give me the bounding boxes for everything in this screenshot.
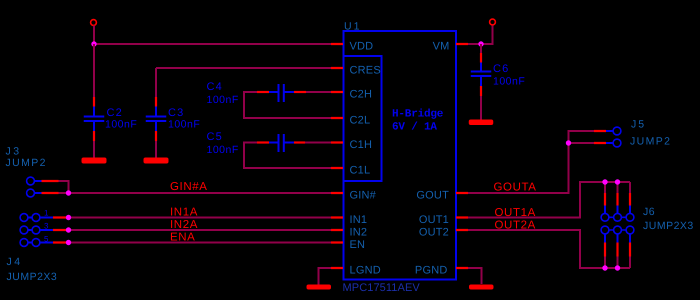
connector J6 [601,182,634,268]
wire CRES horizontal [156,67,331,69]
wire C1H loop top [244,143,331,169]
svg-text:C2H: C2H [350,89,373,101]
wire J3 pin1 to node [59,181,69,193]
connector J3 [27,177,59,197]
supply open point top-left [91,20,97,26]
svg-text:1: 1 [44,209,49,218]
connector J5 [594,127,621,147]
junction GOUT branch [566,140,571,145]
junction IN1A [66,215,71,220]
svg-text:JUMP2: JUMP2 [630,136,671,148]
svg-text:U1: U1 [344,21,361,33]
svg-text:IN1A: IN1A [170,207,198,219]
svg-text:EN: EN [350,239,366,251]
junction VM node [478,41,483,46]
svg-text:GOUT: GOUT [416,190,449,202]
svg-text:IN1: IN1 [350,214,368,226]
svg-text:LGND: LGND [350,265,381,277]
svg-text:IN2A: IN2A [170,219,198,231]
svg-text:C2: C2 [107,107,123,119]
U1 right pin stubs [456,44,468,268]
wire ENA [67,242,331,244]
junction J6 top rail b [615,179,620,184]
svg-text:C1H: C1H [350,139,373,151]
svg-text:C3: C3 [168,107,184,119]
svg-text:3: 3 [44,222,49,231]
svg-text:C6: C6 [493,63,509,75]
wire IN1A [67,217,331,219]
svg-text:GIN#A: GIN#A [170,181,208,193]
wire OUT1A to J6 top rail [468,182,630,218]
wire down to C2 [93,44,95,97]
svg-text:C4: C4 [207,81,223,93]
svg-text:GIN#: GIN# [350,190,377,202]
wire VDD horizontal to U1 [94,43,331,45]
junction IN2A [66,227,71,232]
capacitor C5 [257,134,305,152]
wire VM from open point [468,26,493,45]
U1 description text [392,109,444,134]
svg-text:100nF: 100nF [168,119,200,131]
svg-text:100nF: 100nF [207,144,239,156]
junction J6 bottom rail a [602,265,607,270]
ground under LGND [307,285,332,290]
wire PGND to ground [468,268,482,284]
svg-text:PGND: PGND [415,265,448,277]
wire C2 to ground [93,141,95,158]
wire LGND to ground [319,268,332,285]
capacitor C4 [257,84,306,102]
svg-text:VDD: VDD [350,41,374,53]
wire C3 to ground [155,141,157,158]
svg-text:C2L: C2L [350,115,371,127]
svg-text:JUMP2X3: JUMP2X3 [7,271,58,283]
svg-text:C5: C5 [207,131,223,143]
svg-text:OUT2: OUT2 [419,227,449,239]
svg-text:VM: VM [433,41,450,53]
svg-text:MPC17511AEV: MPC17511AEV [343,282,421,294]
svg-text:J5: J5 [631,119,646,131]
svg-text:JUMP2: JUMP2 [6,157,47,169]
op-amp U1 outline [344,31,457,280]
wire IN2A [67,229,331,231]
wire GOUT to J5 [468,131,594,193]
ground under C6 [469,120,494,126]
svg-text:100nF: 100nF [207,94,239,106]
wire C6 to ground [480,96,482,120]
svg-text:J4: J4 [7,256,23,268]
svg-text:GOUTA: GOUTA [494,182,537,194]
svg-text:OUT1: OUT1 [419,214,449,226]
U1 left pin stubs [331,44,343,268]
svg-text:J3: J3 [6,146,22,158]
ground under C3 [144,158,169,164]
svg-text:J6: J6 [643,206,655,218]
capacitor C3 [146,97,167,141]
junction ENA [66,240,71,245]
ground under C2 [82,158,107,164]
svg-text:OUT2A: OUT2A [495,220,536,232]
wire C2H loop top [244,92,331,118]
connector J4 [20,214,67,247]
wire VDD vertical from open point [93,26,95,45]
supply open point top-right [490,19,496,25]
wire OUT2A to J6 bottom rail [468,230,630,268]
svg-text:100nF: 100nF [105,119,137,131]
wire down to C3 [155,68,157,97]
ground under PGND [469,285,494,290]
junction GIN#A node [66,190,71,195]
capacitor C6 [471,53,492,96]
svg-text:ENA: ENA [170,232,195,244]
svg-text:C1L: C1L [350,165,371,177]
wire down to C6 [480,44,482,53]
svg-text:OUT1A: OUT1A [495,207,536,219]
svg-text:IN2: IN2 [350,227,368,239]
junction J6 top rail a [602,179,607,184]
svg-text:6V / 1A: 6V / 1A [392,122,437,134]
junction J6 bottom rail b [615,265,620,270]
wire GIN#A [59,192,332,194]
svg-text:100nF: 100nF [493,76,525,88]
svg-text:H-Bridge: H-Bridge [392,109,444,121]
capacitor C2 [84,97,105,141]
svg-text:5: 5 [44,235,49,244]
svg-text:CRES: CRES [350,65,381,77]
svg-text:JUMP2X3: JUMP2X3 [643,220,694,232]
junction VDD node [91,41,96,46]
